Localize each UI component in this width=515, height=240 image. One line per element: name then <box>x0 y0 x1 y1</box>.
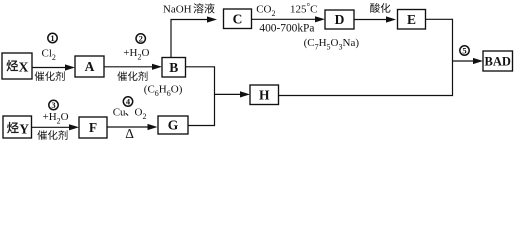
svg-text:C: C <box>233 11 243 26</box>
svg-text:BAD: BAD <box>484 55 510 69</box>
svg-text:Y: Y <box>19 122 29 137</box>
svg-text:NaOH: NaOH <box>163 4 192 16</box>
svg-text:3: 3 <box>51 100 55 110</box>
svg-text:H: H <box>259 87 270 102</box>
svg-text:F: F <box>89 120 97 135</box>
svg-text:Δ: Δ <box>125 126 134 140</box>
svg-text:E: E <box>407 12 416 27</box>
svg-text:1: 1 <box>50 33 54 43</box>
svg-text:5: 5 <box>462 45 466 55</box>
svg-text:125°C: 125°C <box>290 2 317 16</box>
svg-text:D: D <box>335 12 345 27</box>
svg-text:B: B <box>169 60 178 75</box>
svg-text:2: 2 <box>139 33 143 43</box>
svg-text:Cu: Cu <box>113 106 126 118</box>
svg-text:G: G <box>168 118 179 133</box>
svg-text:A: A <box>85 59 95 74</box>
svg-text:400-700kPa: 400-700kPa <box>259 22 314 34</box>
svg-text:X: X <box>19 60 29 75</box>
